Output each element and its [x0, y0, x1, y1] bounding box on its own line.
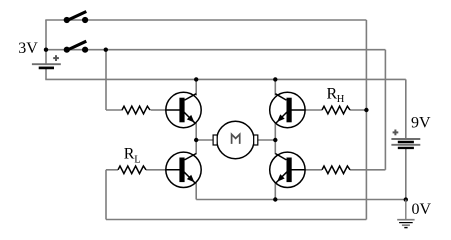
transistor Q4 (lower-right, NPN mirrored) [270, 152, 305, 187]
switch S2 lever arm [67, 41, 87, 50]
node: junction supply rail / Q1 collector [194, 77, 198, 81]
battery B2 plus sign [393, 131, 399, 133]
battery B1 3V negative plate (short) [39, 67, 54, 70]
svg-text:H: H [337, 94, 345, 105]
battery B2 9V cell2 long plate [391, 144, 420, 146]
svg-text:9V: 9V [411, 115, 431, 132]
wire: motor left node to lower-left collector [195, 140, 197, 154]
switch S2 right contact [82, 47, 88, 53]
switch S2 left contact [64, 47, 70, 53]
wire: motor left lead [196, 139, 213, 141]
switch S1 right contact [82, 17, 88, 23]
wire: upper-left transistor collector to supply rail [195, 79, 197, 95]
resistor R1 (upper-left base resistor) [122, 106, 150, 114]
wire: 3V battery negative lead down to 9V-positive rail [45, 68, 47, 79]
wire: S2 output drop wire x=385 down to lower-right base resistor [384, 50, 386, 170]
resistor R4 (lower-right base resistor) [322, 166, 350, 174]
wire: stub into resistor RL [106, 169, 118, 171]
wire: stub Q4 base to resistor R4 [305, 169, 322, 171]
ground (0V earth symbol) [397, 200, 414, 228]
battery B2 9V cell2 short plate [398, 147, 414, 149]
resistor RH (upper-right base resistor) [322, 106, 350, 114]
battery B1 plus sign [53, 57, 59, 59]
wire: stub into resistor R1 (upper-left base) [106, 109, 123, 111]
node: motor right terminal junction [273, 138, 277, 142]
wire: supply rail from 3V negative to 9V battery positive [45, 78, 406, 80]
svg-text:3V: 3V [18, 40, 38, 57]
wire: upper-left emitter down to motor left node [195, 123, 197, 140]
switch S1 lever arm [67, 12, 87, 21]
battery B1 3V positive plate (long) [32, 63, 61, 65]
transistor Q1 (upper-left, NPN) [166, 92, 201, 127]
node: motor left terminal junction [194, 138, 198, 142]
node: junction Q4 emitter / 0V rail [273, 197, 277, 201]
wire: second rail through switch S2 right to x=385 (S2 output) [45, 49, 385, 51]
battery B2 9V cell1 long plate [391, 138, 420, 140]
wire: RL left lead vertical [105, 170, 107, 220]
resistor RL (lower-left base resistor) [118, 166, 146, 174]
wire: motor right node to lower-right collector [274, 140, 276, 154]
wire: upper-right emitter down to motor right node [274, 123, 276, 140]
node: junction 3V+ riser / S2 rail [44, 48, 48, 52]
wire: 9V battery negative lead down to 0V node [405, 148, 407, 200]
motor M [213, 121, 258, 158]
wire: 9V battery positive drop x=406 [405, 79, 407, 139]
wire: stub Q2 base to resistor RH [305, 109, 322, 111]
wire: stub resistor RH to S1 drop wire [350, 109, 366, 111]
wire: 3V battery positive vertical riser at x=46 up to switch rails [45, 20, 47, 64]
svg-text:L: L [134, 154, 140, 165]
wire: stub resistor R4 to S2 drop wire [350, 169, 385, 171]
node: 0V junction at ground [404, 197, 408, 201]
transistor Q3 (lower-left, NPN) [166, 152, 201, 187]
wire: lower-left emitter down to 0V rail [195, 183, 197, 200]
transistor Q2 (upper-right, NPN mirrored) [270, 92, 305, 127]
svg-text:0V: 0V [412, 201, 432, 218]
switch S1 left contact [64, 17, 70, 23]
wire: 0V rail [196, 199, 406, 201]
node: junction supply rail / Q2 collector [273, 77, 277, 81]
wire: RL feed line along bottom [106, 219, 366, 221]
node: junction S2 rail / branch to R1 [104, 48, 108, 52]
wire: lower-right emitter down to 0V rail [274, 183, 276, 200]
wire: S1 output drop wire x=366 from top rail down to RL feed line [365, 20, 367, 220]
wire: branch from S2 rail down to upper-left base resistor [105, 50, 107, 110]
node: junction RH / S1 drop wire [364, 108, 368, 112]
wire: stub resistor RL to Q3 base [146, 169, 166, 171]
wire: stub resistor R1 to transistor Q1 base [151, 109, 167, 111]
battery B2 9V cell1 short plate [398, 141, 414, 143]
wire: motor right lead [258, 139, 276, 141]
wire: upper-right transistor collector to supply rail [274, 79, 276, 95]
wire: top rail from riser to switch S1 then right to x=366 (S1 output) [45, 19, 366, 21]
svg-text:R: R [124, 145, 135, 162]
